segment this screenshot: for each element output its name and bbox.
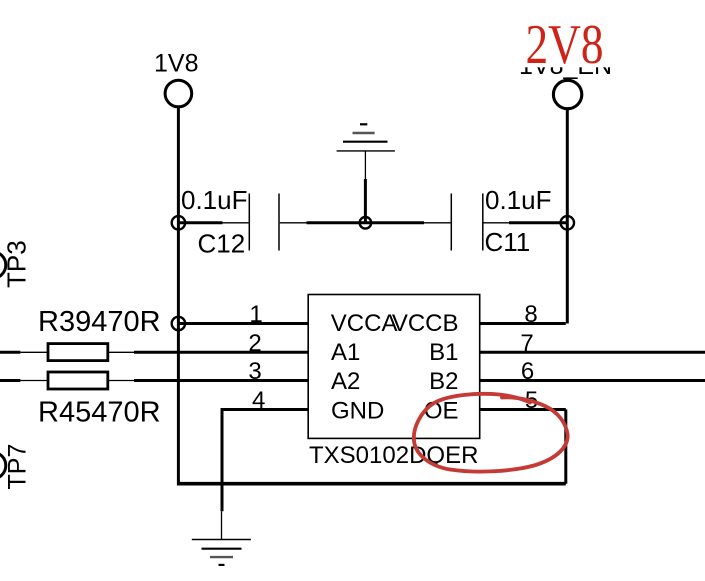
svg-text:B2: B2 bbox=[429, 368, 458, 395]
wire pin8 VCCB to 2V8 rail bbox=[480, 322, 566, 325]
svg-text:VCCB: VCCB bbox=[392, 310, 459, 337]
test point TP3 circle (clipped at edge) bbox=[0, 252, 6, 279]
wire pin7 B1 to right edge bbox=[480, 351, 705, 354]
junction on 2V8 rail at C11 bbox=[561, 216, 574, 229]
wire 1V8 rail vertical bbox=[177, 108, 180, 486]
wire pin3 left segment bbox=[0, 379, 20, 382]
wire C12 to center node bbox=[280, 222, 307, 224]
svg-text:6: 6 bbox=[521, 358, 534, 385]
wire pin5 OE tie to 1V8 bbox=[480, 408, 566, 411]
svg-text:A1: A1 bbox=[331, 339, 360, 366]
svg-text:TXS0102DQER: TXS0102DQER bbox=[309, 442, 478, 469]
resistor R45 bbox=[48, 372, 108, 389]
svg-text:2V8: 2V8 bbox=[526, 14, 604, 76]
ground (top, inverted) bbox=[337, 124, 395, 151]
wire pin4 GND bbox=[222, 408, 308, 411]
svg-text:A2: A2 bbox=[331, 368, 360, 395]
svg-text:3: 3 bbox=[248, 358, 261, 385]
svg-text:TP3: TP3 bbox=[1, 240, 31, 288]
svg-text:VCCA: VCCA bbox=[331, 310, 398, 337]
wire pin1 from 1V8 rail to VCCA bbox=[178, 322, 308, 325]
wire pin2 left segment bbox=[0, 351, 20, 354]
svg-text:1V8: 1V8 bbox=[154, 50, 198, 78]
svg-text:2: 2 bbox=[248, 330, 261, 357]
svg-text:C11: C11 bbox=[485, 227, 531, 257]
junction on 1V8 rail at C12 bbox=[172, 216, 185, 229]
capacitor C12 wire from rail bbox=[178, 221, 222, 224]
junction center node bbox=[360, 217, 372, 229]
ground (bottom) bbox=[192, 540, 251, 565]
wire resistor R45 to pin3 bbox=[108, 380, 134, 382]
wire pin6 B2 to right edge bbox=[480, 379, 705, 382]
svg-text:0.1uF: 0.1uF bbox=[485, 185, 552, 215]
svg-text:8: 8 bbox=[524, 301, 537, 328]
annotation red circle around OE pin bbox=[414, 394, 568, 472]
white cover over struck label bbox=[510, 28, 628, 67]
wire 2V8 rail vertical bbox=[566, 108, 569, 324]
op-amp/ic U1 TXS0102 body bbox=[308, 295, 480, 439]
svg-text:GND: GND bbox=[331, 397, 384, 424]
svg-text:B1: B1 bbox=[429, 339, 458, 366]
port 2V8 circle bbox=[553, 80, 581, 108]
capacitor C11 plates bbox=[450, 194, 452, 251]
capacitor C12 plates bbox=[248, 194, 250, 251]
resistor R39 bbox=[48, 344, 108, 361]
svg-text:R39470R: R39470R bbox=[38, 306, 161, 338]
test point TP7 circle (clipped at edge) bbox=[0, 452, 6, 479]
svg-text:1: 1 bbox=[249, 301, 262, 328]
svg-text:7: 7 bbox=[520, 330, 533, 357]
svg-text:TP7: TP7 bbox=[4, 444, 32, 490]
wire C11 to 2V8 rail bbox=[484, 222, 510, 224]
svg-text:C12: C12 bbox=[198, 229, 246, 259]
junction on 1V8 rail at pin1 bbox=[172, 317, 185, 330]
wire center node to top ground bbox=[364, 179, 367, 223]
svg-text:4: 4 bbox=[252, 387, 265, 414]
wire resistor R39 to pin2 bbox=[108, 351, 134, 353]
svg-text:R45470R: R45470R bbox=[38, 397, 161, 429]
svg-text:0.1uF: 0.1uF bbox=[181, 185, 248, 215]
port 1V8 circle bbox=[165, 80, 192, 107]
